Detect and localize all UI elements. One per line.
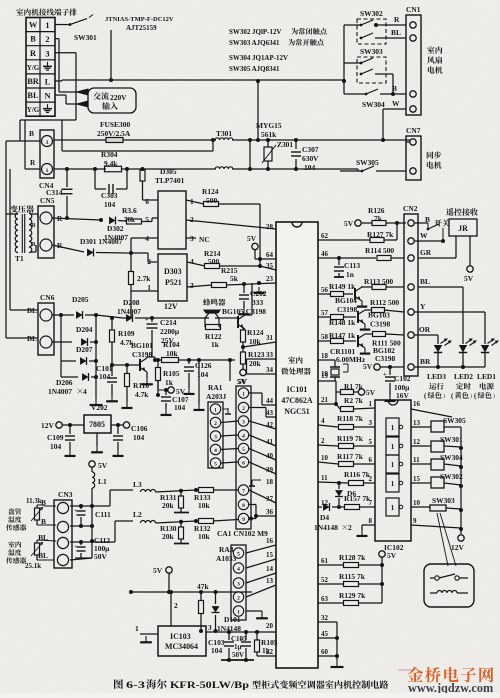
wires IC101 pins 33/34: [247, 358, 277, 360]
wire sensor line 1 up to L3: [109, 490, 111, 506]
wire D303 pin1: [131, 290, 158, 292]
capacitor C112 100u 50V: [77, 547, 86, 551]
svg-text:6.00MHz: 6.00MHz: [336, 355, 366, 364]
wire R row down: [55, 52, 76, 54]
svg-text:C314: C314: [46, 188, 63, 197]
transistor BG104 C3198: [354, 288, 356, 300]
svg-text:28: 28: [266, 223, 273, 231]
svg-text:JR: JR: [458, 224, 468, 233]
diode D101 1N4148: [215, 592, 217, 604]
svg-text:1n: 1n: [346, 270, 355, 279]
svg-text:13: 13: [413, 419, 420, 427]
svg-text:SW303 AJQ6341: SW303 AJQ6341: [229, 39, 280, 47]
svg-text:3: 3: [242, 420, 245, 426]
capacitor C105 1u 50V electrolytic: [245, 632, 247, 640]
svg-text:1: 1: [391, 461, 395, 469]
svg-text:OR: OR: [419, 325, 431, 334]
svg-text:13: 13: [266, 577, 273, 585]
svg-text:C3198: C3198: [132, 350, 153, 359]
svg-text:www.jqdzw.com: www.jqdzw.com: [408, 681, 493, 693]
svg-text:R: R: [31, 222, 36, 229]
svg-text:2: 2: [242, 406, 245, 412]
svg-text:35: 35: [266, 262, 273, 270]
terminal block XT (indoor unit terminal strip): [26, 18, 55, 117]
svg-text:2: 2: [190, 215, 194, 224]
wire buzzer loop: [152, 317, 203, 319]
fuse FUSE300 250V/2.5A: [54, 139, 106, 141]
inverter gate symbols inside IC102: [386, 418, 399, 436]
svg-text:5V: 5V: [98, 461, 108, 470]
svg-text:16: 16: [413, 400, 420, 408]
wire IC103 pin3 to IC101 pin20: [206, 631, 276, 633]
svg-text:4.7k: 4.7k: [135, 390, 149, 399]
svg-text:14: 14: [266, 565, 273, 573]
svg-text:TLP7401: TLP7401: [155, 176, 185, 185]
svg-text:SW302: SW302: [360, 9, 383, 18]
wire rectifier output bus: [95, 315, 97, 398]
svg-text:R: R: [394, 15, 400, 24]
svg-text:SW302 JQlP-12V: SW302 JQlP-12V: [229, 28, 281, 36]
IC102 5V terminal: [379, 551, 385, 557]
svg-text:10: 10: [321, 454, 328, 462]
svg-text:C3198: C3198: [337, 305, 358, 314]
svg-text:CN5: CN5: [40, 196, 55, 205]
svg-text:7805: 7805: [89, 420, 105, 429]
capacitor C103 104: [228, 632, 230, 640]
wires CN102 pins 8,9 joined to pin36: [249, 504, 256, 506]
svg-text:SW303: SW303: [432, 496, 455, 505]
svg-text:Y/G: Y/G: [27, 106, 40, 114]
svg-text:104: 104: [211, 646, 222, 655]
room temp sensor (thermistor 25.1k): [8, 541, 21, 547]
svg-text:RA1: RA1: [208, 383, 223, 392]
svg-text:561k: 561k: [261, 130, 277, 139]
wire W row to SW301: [55, 24, 70, 26]
svg-text:7: 7: [369, 499, 373, 507]
svg-text:34: 34: [266, 366, 273, 374]
svg-text:62: 62: [321, 232, 328, 240]
svg-text:5V: 5V: [366, 388, 376, 397]
svg-text:CN7: CN7: [406, 126, 421, 135]
wire CN6 to diodes: [52, 314, 61, 316]
svg-text:3: 3: [190, 281, 194, 290]
svg-text:5V: 5V: [387, 551, 397, 560]
svg-text:IC101: IC101: [287, 385, 308, 394]
svg-text:C3198: C3198: [370, 320, 391, 329]
resistor R105 1k: [255, 640, 260, 652]
svg-text:12V: 12V: [41, 421, 54, 430]
svg-text:D301 1N4007: D301 1N4007: [80, 237, 123, 246]
remote receiver JR: [446, 208, 478, 216]
svg-text:T1: T1: [15, 254, 24, 263]
svg-text:C109: C109: [47, 433, 64, 442]
svg-text:5V: 5V: [464, 274, 474, 283]
svg-text:4: 4: [83, 387, 87, 396]
svg-text:76k: 76k: [124, 216, 135, 224]
capacitor C102 100u 16V electrolytic: [389, 367, 391, 375]
svg-text:3: 3: [237, 582, 240, 588]
RA3 pin1 ground: [246, 610, 262, 612]
svg-text:4: 4: [190, 257, 194, 266]
switch SW304 on B line: [344, 93, 366, 95]
capacitor C307 630V 104: [295, 140, 297, 149]
svg-text:56: 56: [321, 286, 328, 294]
wire D305 pin3 NC: [186, 237, 196, 239]
7805 output 5V: [111, 424, 123, 426]
svg-text:D305: D305: [160, 167, 177, 176]
LED2: [459, 345, 467, 353]
wire pin 21 to R2: [318, 403, 336, 405]
wire R to CN1: [386, 24, 406, 26]
svg-text:CN6: CN6: [40, 293, 55, 302]
svg-text:47k: 47k: [197, 582, 209, 591]
LED3: [434, 345, 442, 353]
svg-text:+: +: [74, 544, 77, 550]
svg-text:LED2: LED2: [454, 372, 473, 381]
svg-text:R149 1k: R149 1k: [329, 282, 356, 291]
svg-text:1μ: 1μ: [234, 643, 241, 651]
watermark jqdzw logo: [398, 669, 414, 671]
svg-text:R112 500: R112 500: [370, 298, 399, 307]
wires RA3 to IC101: [246, 545, 276, 553]
capacitor C303 104 parallel with R304: [94, 169, 96, 189]
svg-text:500: 500: [208, 257, 219, 266]
svg-text:1: 1: [45, 21, 49, 30]
wires pins 32/45/60 to ground: [318, 621, 337, 623]
wire R line y=169: [54, 168, 106, 170]
svg-text:SW305: SW305: [443, 416, 466, 425]
wire L row main AC line: [55, 80, 62, 82]
svg-text:C105: C105: [231, 635, 247, 643]
LED1: [481, 345, 489, 353]
svg-text:46: 46: [321, 250, 328, 258]
wire branch to ground x=199: [197, 358, 201, 362]
svg-text:5: 5: [242, 447, 245, 453]
svg-text:16: 16: [266, 537, 273, 545]
svg-text:W: W: [420, 231, 428, 240]
svg-text:9: 9: [242, 517, 245, 523]
resistor R122 1k: [206, 325, 221, 330]
svg-text:R124: R124: [247, 328, 264, 337]
svg-text:R117 7k: R117 7k: [337, 452, 364, 461]
svg-text:61: 61: [321, 557, 328, 565]
svg-text:C111: C111: [95, 510, 111, 519]
svg-text:R128 7k: R128 7k: [339, 553, 366, 562]
resistor R109 4.7k: [110, 316, 114, 320]
wire from x62 y151 to fuse line: [62, 150, 213, 152]
svg-text:18: 18: [266, 478, 273, 486]
diode D4 1N4148x2: [318, 506, 322, 508]
wire drop to lower AC path: [61, 120, 63, 151]
wire IC102 pin9 to 12V bus: [411, 525, 461, 528]
svg-text:3: 3: [214, 435, 217, 441]
figure caption: [114, 679, 123, 689]
connector CN4: [40, 130, 54, 178]
wire D301 junction to D305 pin4: [130, 238, 132, 253]
svg-text:BL: BL: [27, 306, 37, 315]
sync motor label: [427, 151, 442, 158]
svg-text:JTNIAS-TMP-F-DC12V: JTNIAS-TMP-F-DC12V: [105, 16, 174, 23]
svg-text:1k: 1k: [262, 646, 271, 655]
wire vertical common x=344: [343, 25, 345, 94]
svg-text:1k: 1k: [165, 378, 174, 387]
svg-text:R2 7k: R2 7k: [344, 396, 364, 405]
svg-text:5: 5: [145, 215, 149, 224]
svg-text:D101: D101: [224, 615, 241, 624]
microprocessor IC101 47C862A NGC51: [276, 222, 318, 668]
svg-text:BL: BL: [27, 334, 37, 343]
svg-text:43: 43: [266, 409, 273, 417]
svg-text:1: 1: [46, 168, 49, 174]
svg-text:P521: P521: [165, 278, 182, 287]
relay contact SW301: [69, 23, 72, 26]
svg-text:7k: 7k: [374, 214, 383, 223]
wire frame below terminal block: [20, 119, 76, 121]
svg-text:R114 500: R114 500: [365, 246, 394, 255]
7805 ground pin: [96, 433, 98, 446]
wire R feed to CN4: [24, 120, 26, 169]
svg-text:20k: 20k: [249, 359, 261, 368]
svg-text:47C862A: 47C862A: [281, 396, 312, 405]
svg-text:220V: 220V: [110, 93, 127, 102]
svg-text:11: 11: [413, 456, 420, 464]
svg-text:33: 33: [266, 351, 273, 359]
wires CN3 rows: [70, 505, 110, 507]
svg-text:R124: R124: [202, 187, 219, 196]
svg-text:12V: 12V: [451, 543, 464, 552]
svg-text:45: 45: [321, 630, 328, 638]
svg-text:1: 1: [369, 400, 373, 408]
svg-text:6-3: 6-3: [126, 681, 146, 691]
capacitor C111: [77, 511, 86, 515]
svg-text:D206: D206: [56, 378, 73, 387]
svg-text:R: R: [57, 241, 63, 250]
svg-text:5V: 5V: [363, 362, 373, 371]
wire R104 bus down to CN102 5V: [229, 360, 231, 381]
svg-text:BL: BL: [27, 91, 39, 100]
svg-text:R116 7k: R116 7k: [344, 470, 371, 479]
svg-text:L2: L2: [133, 510, 142, 519]
svg-text:A203J: A203J: [206, 392, 227, 401]
capacitor C126 104: [188, 360, 190, 364]
svg-text:W: W: [392, 99, 400, 108]
svg-text:NC: NC: [199, 235, 210, 244]
svg-text:T301: T301: [216, 129, 232, 138]
svg-text:R110: R110: [133, 381, 149, 390]
svg-text:5V: 5V: [237, 377, 247, 386]
diode D302 1N4007: [109, 217, 115, 225]
driver IC102 (inverter array): [375, 400, 411, 541]
svg-text:1: 1: [391, 504, 395, 512]
svg-text:V202: V202: [91, 403, 108, 412]
relay detail box: [424, 564, 474, 607]
svg-text:BL: BL: [391, 28, 401, 37]
svg-text:2: 2: [214, 421, 217, 427]
wire mains left rail down to transformer/CN6: [6, 140, 20, 142]
svg-text:10k: 10k: [166, 349, 178, 358]
svg-text:D208: D208: [123, 298, 140, 307]
svg-text:57: 57: [321, 309, 328, 317]
wire IC102 pin16 stub: [411, 409, 452, 417]
ground bar under C103/C105: [221, 659, 254, 661]
svg-text:5: 5: [369, 438, 373, 446]
wire OR row to LED3: [414, 334, 438, 336]
wire Y row to LED1: [414, 311, 485, 313]
IC102 pin8 ground: [362, 524, 375, 526]
svg-text:12V: 12V: [164, 302, 178, 311]
svg-text:BR: BR: [420, 357, 431, 366]
svg-text:4: 4: [214, 448, 217, 454]
svg-text:R: R: [30, 49, 37, 58]
capacitor C107 104: [164, 388, 168, 392]
svg-text:5V: 5V: [247, 234, 257, 243]
svg-text:333: 333: [252, 298, 263, 307]
indoor fan motor label: [427, 46, 442, 53]
wire D305 pin6: [142, 181, 144, 200]
svg-text:D303: D303: [164, 267, 182, 276]
svg-text:SW305: SW305: [356, 158, 379, 167]
capacitor C113 1n: [337, 256, 341, 260]
svg-text:2200μ: 2200μ: [160, 327, 180, 336]
svg-text:1k: 1k: [211, 340, 220, 349]
svg-text:R304: R304: [101, 150, 118, 159]
svg-text:18: 18: [321, 352, 328, 360]
svg-text:15: 15: [413, 475, 420, 483]
svg-text:25.1k: 25.1k: [25, 562, 41, 570]
wires RA1 to CN102: [221, 421, 238, 423]
svg-text:R157 7k: R157 7k: [344, 494, 371, 503]
svg-text:2: 2: [45, 35, 49, 44]
svg-text:LED3: LED3: [427, 372, 446, 381]
transformer T1: [10, 205, 34, 213]
wire BL to CN1: [386, 37, 406, 39]
svg-text:2: 2: [147, 257, 151, 266]
svg-text:R115 7k: R115 7k: [339, 572, 366, 581]
svg-text:36: 36: [266, 508, 273, 516]
BG104 emitter ground: [361, 301, 363, 307]
svg-text:R129 7k: R129 7k: [339, 591, 366, 600]
svg-text:R104: R104: [163, 340, 180, 349]
svg-text:3: 3: [45, 49, 49, 58]
resistor R105b 1k vertical: [156, 368, 161, 381]
svg-text:SW304 JQ1AP-12V: SW304 JQ1AP-12V: [229, 54, 288, 62]
svg-text:AJT25159: AJT25159: [126, 24, 157, 32]
svg-text:SW303: SW303: [360, 47, 383, 56]
wire B feed to CN4: [19, 120, 21, 141]
svg-text:L: L: [45, 77, 51, 86]
svg-text:BG105 C3198: BG105 C3198: [222, 307, 266, 316]
svg-text:R123: R123: [248, 350, 265, 359]
svg-text:8: 8: [369, 517, 373, 525]
svg-text:58: 58: [321, 333, 328, 341]
svg-text:N: N: [44, 92, 50, 101]
svg-text:5: 5: [214, 462, 217, 468]
wire D305 pin2 to IC101 pin28: [186, 220, 276, 229]
svg-text:+: +: [145, 316, 149, 323]
svg-text:10k: 10k: [198, 501, 210, 510]
5V terminal to L1: [89, 461, 95, 467]
wire W to CN1: [383, 108, 406, 110]
svg-text:B: B: [29, 129, 34, 138]
svg-text:7: 7: [242, 489, 245, 495]
svg-text:1: 1: [391, 443, 395, 451]
svg-text:5: 5: [237, 552, 240, 558]
svg-text:MC34064: MC34064: [165, 642, 198, 651]
svg-text:B: B: [30, 35, 36, 44]
5V terminal: [157, 381, 159, 390]
svg-text:15: 15: [266, 551, 273, 559]
svg-text:SW301: SW301: [74, 33, 97, 42]
svg-text:2: 2: [348, 523, 352, 532]
wire to IC103 pin2: [170, 592, 172, 626]
svg-text:Z301: Z301: [277, 140, 293, 149]
svg-text:20: 20: [266, 622, 273, 630]
svg-text:11: 11: [321, 474, 328, 482]
wires CN102 to IC101 pins: [249, 392, 262, 394]
svg-text:4: 4: [237, 567, 240, 573]
svg-text:CN3: CN3: [58, 490, 73, 499]
inductor L1: [92, 472, 95, 488]
svg-text:BR: BR: [27, 77, 40, 86]
svg-text:104: 104: [133, 433, 144, 442]
svg-text:R3.6: R3.6: [122, 206, 137, 215]
optocoupler D303 P521: [158, 254, 187, 301]
svg-text:CA1 CN102 M9: CA1 CN102 M9: [217, 529, 268, 538]
svg-text:104: 104: [50, 442, 61, 451]
diode D6: [338, 483, 340, 489]
resistor R123 20k: [241, 352, 246, 364]
svg-text:CN2: CN2: [403, 204, 418, 213]
svg-text:6: 6: [369, 456, 373, 464]
svg-text:104: 104: [174, 403, 185, 412]
svg-text:2: 2: [174, 601, 178, 610]
wire sensor line 2 up to L2: [114, 521, 116, 542]
svg-text:B: B: [392, 84, 397, 93]
svg-text:9: 9: [413, 517, 417, 525]
svg-text:23: 23: [266, 275, 273, 283]
svg-text:C303: C303: [101, 191, 118, 200]
svg-text:W: W: [29, 21, 38, 30]
svg-text:16V: 16V: [396, 391, 409, 400]
svg-text:FUSE300: FUSE300: [100, 120, 130, 129]
wire vertical joining lines at x=250: [249, 140, 251, 169]
svg-text:44: 44: [266, 397, 273, 405]
svg-text:250V/2.5A: 250V/2.5A: [97, 129, 131, 138]
svg-text:KFR-50LW/Bp: KFR-50LW/Bp: [170, 680, 250, 691]
svg-text:D204: D204: [76, 325, 93, 334]
svg-text:6: 6: [145, 197, 149, 206]
svg-text:6: 6: [242, 461, 245, 467]
svg-text:NGC51: NGC51: [284, 407, 310, 416]
svg-text:BL: BL: [420, 277, 430, 286]
svg-text:52: 52: [321, 576, 328, 584]
svg-text:5V: 5V: [344, 219, 354, 228]
wire BL row to LED2: [418, 286, 463, 288]
svg-text:2: 2: [321, 437, 325, 445]
IC103 MC34064 voltage monitor: [158, 626, 206, 656]
svg-text:10k: 10k: [198, 532, 210, 541]
wire B row to AC input: [55, 38, 59, 40]
switch SW305 on sync motor line: [357, 169, 359, 171]
wire W row: [414, 240, 443, 242]
svg-text:R109: R109: [118, 329, 135, 338]
ground tick between RA1 and CN102: [227, 408, 229, 414]
AC 220V input box: [88, 88, 136, 113]
12V bus and terminal: [460, 448, 462, 534]
svg-text:D207: D207: [76, 345, 93, 354]
resistor 2.7k: [129, 272, 134, 285]
svg-text:1N4007: 1N4007: [48, 387, 72, 396]
